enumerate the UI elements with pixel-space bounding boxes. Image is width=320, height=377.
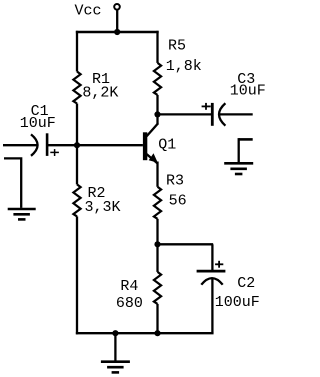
svg-text:680: 680 bbox=[116, 295, 143, 312]
svg-text:56: 56 bbox=[169, 193, 187, 210]
wire emitter lower bbox=[156, 219, 158, 245]
capacitor C1 bbox=[31, 133, 47, 156]
wire top rail bbox=[76, 31, 159, 34]
svg-text:3,3K: 3,3K bbox=[85, 199, 121, 216]
wire C3 output bbox=[219, 113, 253, 115]
svg-text:1,8k: 1,8k bbox=[166, 58, 202, 75]
wire input signal bbox=[3, 144, 37, 146]
wire C2 lower bbox=[211, 279, 213, 334]
label + (C2 polarity) bbox=[215, 261, 223, 268]
capacitor C2 bbox=[197, 271, 226, 285]
resistor R3 bbox=[154, 187, 161, 219]
node base junction bbox=[74, 142, 80, 148]
wire left rail mid bbox=[76, 104, 78, 146]
svg-text:R5: R5 bbox=[168, 37, 186, 54]
label + (C3 polarity) bbox=[202, 103, 211, 110]
transistor Q1 emitter lead bbox=[147, 154, 158, 164]
resistor R4 bbox=[154, 272, 161, 304]
ground (main) bbox=[101, 333, 130, 372]
label + (C1 polarity) bbox=[50, 149, 59, 156]
wire collector stub bbox=[156, 95, 158, 125]
svg-text:8,2K: 8,2K bbox=[82, 85, 118, 102]
wire left rail bottom bbox=[76, 216, 78, 334]
capacitor C3 bbox=[212, 103, 225, 126]
wire left rail lower bbox=[76, 145, 78, 184]
wire emitter bottom bbox=[156, 244, 158, 272]
wire collector to C3 bbox=[158, 113, 213, 115]
wire left rail upper bbox=[76, 31, 78, 72]
svg-text:R4: R4 bbox=[120, 278, 138, 295]
node ground junction bbox=[112, 330, 118, 336]
ground (input) bbox=[8, 209, 36, 219]
svg-text:100uF: 100uF bbox=[215, 294, 260, 311]
wire C2 branch vertical bbox=[211, 244, 213, 270]
wire C2 branch horizontal bbox=[158, 243, 214, 245]
svg-text:C2: C2 bbox=[237, 275, 255, 292]
wire bottom rail bbox=[76, 332, 214, 334]
resistor R1 bbox=[73, 72, 80, 104]
transistor Q1 base bar bbox=[143, 132, 147, 160]
ground (output reference) bbox=[224, 138, 253, 174]
svg-text:Vcc: Vcc bbox=[75, 3, 102, 20]
svg-text:10uF: 10uF bbox=[230, 82, 266, 99]
resistor R5 bbox=[154, 63, 161, 95]
wire to bottom rail bbox=[156, 304, 158, 334]
node bottom rail junction bbox=[154, 330, 160, 336]
Vcc terminal circle bbox=[114, 4, 120, 10]
wire emitter bbox=[156, 162, 158, 187]
wire Vcc stub bbox=[116, 9, 118, 32]
node collector junction bbox=[154, 111, 160, 117]
wire base bbox=[47, 144, 143, 146]
wire input return stub bbox=[4, 158, 21, 208]
svg-text:10uF: 10uF bbox=[20, 115, 56, 132]
wire right rail upper bbox=[156, 31, 158, 63]
node emitter junction bbox=[154, 241, 160, 247]
transistor Q1 collector lead bbox=[147, 123, 159, 136]
transistor Q1 emitter arrow bbox=[149, 153, 158, 163]
svg-text:R3: R3 bbox=[166, 173, 184, 190]
svg-text:Q1: Q1 bbox=[158, 137, 176, 154]
resistor R2 bbox=[73, 184, 80, 216]
node Vcc junction bbox=[114, 29, 120, 35]
